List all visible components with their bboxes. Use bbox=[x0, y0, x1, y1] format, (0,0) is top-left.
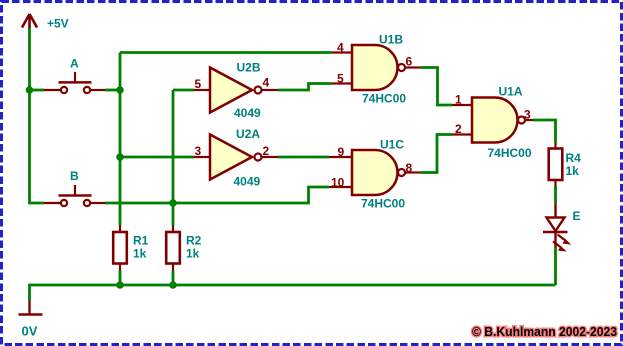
svg-text:A: A bbox=[70, 57, 79, 71]
nand gate U1A bbox=[452, 98, 533, 143]
svg-text:E: E bbox=[573, 209, 581, 223]
wire U1A output to R4 bbox=[533, 120, 556, 143]
svg-text:4: 4 bbox=[263, 76, 270, 90]
junction ground rail R1 bbox=[116, 281, 124, 289]
wire switch A left stub bbox=[30, 89, 45, 92]
wire node A to U2A input bbox=[120, 156, 194, 159]
svg-text:5: 5 bbox=[195, 77, 202, 91]
wire +5V rail down left side bbox=[30, 28, 45, 203]
svg-text:4049: 4049 bbox=[234, 175, 261, 189]
wire node B to U2B input bbox=[173, 89, 194, 92]
svg-text:U1A: U1A bbox=[499, 85, 523, 99]
wire U1B output to U1A pin1 bbox=[420, 68, 452, 106]
svg-text:3: 3 bbox=[195, 144, 202, 158]
svg-text:U2B: U2B bbox=[237, 61, 261, 75]
junction node A at switch bbox=[116, 86, 124, 94]
resistor R4 bbox=[549, 143, 563, 186]
wire switch A right to node A bbox=[105, 89, 120, 92]
wire R2 to ground rail bbox=[172, 271, 175, 286]
svg-text:U2A: U2A bbox=[236, 127, 260, 141]
wire R4 to LED bbox=[554, 186, 557, 203]
power +5V arrow bbox=[22, 14, 37, 30]
ground 0V symbol bbox=[19, 301, 43, 315]
wire U2A output to U1C pin9 bbox=[278, 156, 329, 159]
svg-text:2: 2 bbox=[455, 122, 462, 136]
wire node A vertical bbox=[119, 53, 122, 226]
svg-text:1k: 1k bbox=[566, 164, 580, 178]
svg-text:4049: 4049 bbox=[234, 106, 261, 120]
svg-text:R1: R1 bbox=[133, 234, 149, 248]
svg-text:1: 1 bbox=[455, 93, 462, 107]
nand gate U1C bbox=[329, 150, 420, 195]
nand gate U1B bbox=[332, 45, 420, 90]
svg-text:9: 9 bbox=[338, 145, 345, 159]
wire U2B output to U1B pin5 bbox=[278, 84, 332, 91]
resistor R1 bbox=[113, 226, 127, 271]
svg-text:+5V: +5V bbox=[47, 17, 69, 31]
inverter U2A bbox=[194, 135, 278, 180]
wire LED to ground rail bbox=[554, 248, 557, 286]
svg-text:3: 3 bbox=[524, 108, 531, 122]
inverter U2B bbox=[194, 68, 278, 113]
LED E bbox=[543, 203, 570, 251]
wire row B from switch to U1C pin10 step bbox=[105, 187, 329, 203]
svg-text:74HC00: 74HC00 bbox=[362, 92, 406, 106]
wire node B vertical bbox=[172, 90, 175, 226]
svg-text:1k: 1k bbox=[133, 247, 147, 261]
pushbutton B bbox=[44, 185, 105, 206]
junction ground rail R2 bbox=[169, 281, 177, 289]
svg-text:U1B: U1B bbox=[379, 33, 403, 47]
svg-text:74HC00: 74HC00 bbox=[488, 146, 532, 160]
svg-text:2: 2 bbox=[263, 144, 270, 158]
resistor R2 bbox=[166, 226, 180, 271]
junction node A at U2A input bbox=[116, 153, 124, 161]
svg-text:© B.Kuhlmann 2002-2023: © B.Kuhlmann 2002-2023 bbox=[472, 325, 617, 339]
svg-text:0V: 0V bbox=[22, 324, 38, 339]
svg-text:R4: R4 bbox=[566, 151, 582, 165]
junction on rail at switch A bbox=[26, 86, 34, 94]
svg-text:74HC00: 74HC00 bbox=[361, 197, 405, 211]
svg-text:10: 10 bbox=[331, 176, 345, 190]
pushbutton A bbox=[44, 72, 105, 93]
junction node B at row B bbox=[169, 199, 177, 207]
svg-text:R2: R2 bbox=[186, 234, 202, 248]
svg-text:5: 5 bbox=[337, 72, 344, 86]
wire ground rail bbox=[30, 285, 556, 301]
wire R1 to ground rail bbox=[119, 271, 122, 286]
wire U1C output to U1A pin2 bbox=[420, 135, 452, 173]
svg-text:8: 8 bbox=[406, 161, 413, 175]
svg-text:4: 4 bbox=[337, 41, 344, 55]
svg-text:1k: 1k bbox=[186, 247, 200, 261]
svg-text:B: B bbox=[70, 169, 79, 183]
svg-text:U1C: U1C bbox=[380, 138, 404, 152]
svg-text:6: 6 bbox=[406, 55, 413, 69]
wire node A top rail to U1B pin4 bbox=[120, 51, 332, 54]
